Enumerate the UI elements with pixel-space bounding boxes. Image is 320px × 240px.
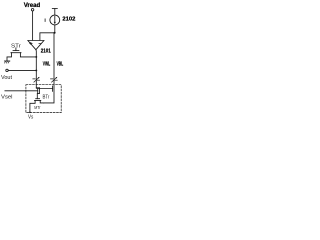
- svg-text:2102: 2102: [62, 17, 75, 23]
- wire feedback to op-amp - input: [40, 33, 55, 41]
- variable arrow on VBL line: [51, 79, 58, 80]
- label I of current source: [44, 19, 46, 22]
- wire WL to BTr gate: [37, 88, 53, 90]
- wire Vsel: [5, 90, 38, 92]
- svg-text:Vsel: Vsel: [1, 95, 13, 101]
- junction STr-output: [35, 56, 37, 58]
- svg-text:Vread: Vread: [24, 2, 41, 9]
- wire Vout to output line: [8, 69, 36, 71]
- svg-text:Vs: Vs: [28, 115, 34, 120]
- svg-text:Vout: Vout: [1, 75, 12, 81]
- op-amp U 2101: [28, 41, 44, 50]
- power bar of current source: [52, 8, 57, 10]
- svg-text:MTr: MTr: [34, 105, 40, 111]
- terminal Vout: [6, 69, 8, 71]
- ground: [4, 60, 9, 62]
- svg-text:2101: 2101: [41, 49, 51, 55]
- variable arrow on VWL line: [33, 79, 40, 80]
- junction Vout-output: [35, 69, 37, 71]
- current source I 2102: [50, 15, 60, 25]
- svg-text:VBL: VBL: [57, 62, 64, 68]
- transistor MTr: [36, 98, 40, 100]
- wire select source to MTr gate: [37, 93, 39, 98]
- svg-text:BTr: BTr: [43, 95, 50, 101]
- transistor STr: [15, 48, 17, 51]
- svg-text:VWL: VWL: [43, 62, 51, 68]
- terminal Vread: [31, 9, 33, 11]
- wire STr drain to output line: [20, 53, 36, 57]
- junction MTr source at box edge: [29, 111, 31, 113]
- wire current source to feedback node: [54, 25, 56, 33]
- memory cell dashed box: [26, 85, 61, 113]
- junction feedback node: [54, 32, 56, 34]
- transistor BTr gate bar: [52, 86, 54, 91]
- wire VBL line: [44, 33, 54, 103]
- wire power bar to current source: [54, 9, 56, 16]
- transistor select (gate from Vsel): [36, 87, 39, 89]
- wire op-amp output / VWL line: [35, 50, 37, 88]
- wire Vread to op-amp + input: [32, 11, 34, 40]
